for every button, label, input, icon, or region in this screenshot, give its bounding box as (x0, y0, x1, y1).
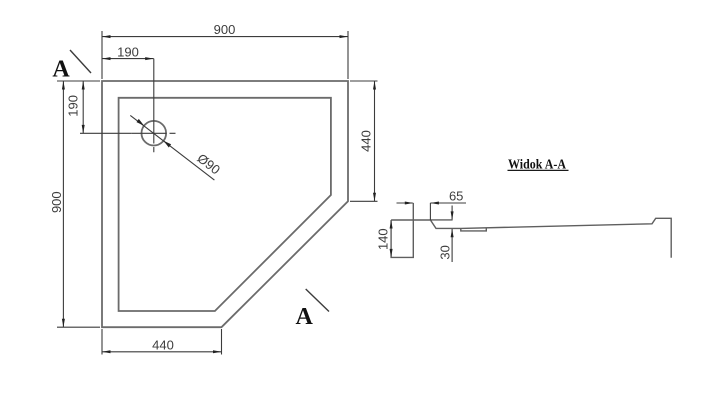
svg-text:190: 190 (66, 95, 81, 117)
svg-text:A: A (52, 57, 70, 83)
section profile: left skirt (391, 203, 413, 258)
dimension 65: extension up from bend (429, 203, 431, 220)
dimension 440 bottom: extension lines (102, 329, 222, 355)
drain centerline vertical (153, 59, 155, 153)
dimension 190 top: arrows (102, 57, 111, 60)
dimension 30: upper tail and arrow (451, 206, 453, 220)
centerline link to 190 dim (80, 132, 131, 134)
dimension 900 left: dim line (62, 81, 64, 327)
dimension 440 bottom: dim line (102, 351, 222, 353)
section mark slash top (70, 50, 91, 73)
leader arrow upper (137, 119, 145, 126)
svg-text:140: 140 (376, 228, 391, 250)
dimension 900 top: dim line (102, 36, 348, 38)
inner pentagon tray floor outline (119, 98, 331, 311)
svg-text:440: 440 (152, 337, 174, 352)
dimension 140: arrows on skirt edge (390, 220, 393, 229)
dimension 440 right: dim line (374, 81, 376, 201)
dimension 190 top: dim line (102, 58, 154, 60)
svg-text:30: 30 (437, 245, 452, 259)
dimension 190 left: dim line (82, 81, 84, 133)
dimension 440 right: extension lines (350, 81, 378, 201)
outer pentagon tray outline (102, 81, 348, 327)
svg-text:190: 190 (117, 45, 139, 60)
dimension 900 top: extension lines (102, 31, 348, 79)
svg-text:440: 440 (359, 130, 374, 152)
dimension 900 left: extension lines (57, 81, 100, 327)
section profile: rim top and diagonal and floor (391, 218, 671, 257)
dimension 30: extension line at rim level (431, 219, 453, 221)
dimension 440 bottom: arrows (102, 350, 111, 353)
section title underline (508, 169, 569, 171)
dimension 65: right tail and arrow (430, 202, 466, 204)
drain centerline horizontal (131, 132, 175, 134)
leader line for drain diameter (130, 115, 214, 180)
svg-text:900: 900 (214, 22, 236, 37)
drain circle (142, 121, 167, 146)
section mark slash bottom (306, 289, 329, 312)
dimension 440 right: arrows (373, 81, 376, 90)
leader arrow lower (164, 141, 172, 148)
dimension 30: lower tail and arrow (451, 229, 453, 262)
svg-text:A: A (296, 304, 314, 330)
svg-text:65: 65 (449, 188, 463, 203)
dimension 190 left: arrows (82, 81, 85, 90)
svg-text:Ø90: Ø90 (194, 150, 223, 177)
dimension 65: left tail and arrow (397, 202, 413, 204)
svg-text:900: 900 (49, 191, 64, 213)
dimension 900 left: arrows (62, 81, 65, 90)
svg-text:Widok A-A: Widok A-A (508, 156, 566, 171)
dimension 900 top: arrows (102, 35, 111, 38)
section profile: drain recess tab (461, 228, 487, 231)
